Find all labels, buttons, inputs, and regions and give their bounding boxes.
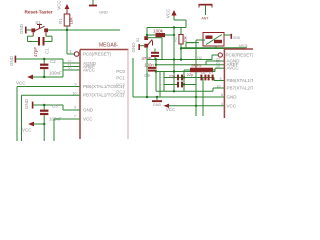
svg-text:PC2: PC2 <box>116 83 125 88</box>
svg-text:GND: GND <box>24 98 29 109</box>
svg-text:7: 7 <box>74 115 76 119</box>
svg-text:Reset-Taster: Reset-Taster <box>24 10 52 15</box>
svg-text:VCC: VCC <box>22 128 32 133</box>
svg-text:GND: GND <box>83 108 94 113</box>
svg-text:R1: R1 <box>58 18 63 24</box>
svg-text:Q1: Q1 <box>197 56 202 60</box>
svg-text:VCC: VCC <box>227 103 237 108</box>
svg-text:PC3: PC3 <box>116 90 125 95</box>
svg-text:AVCC: AVCC <box>83 68 96 73</box>
svg-text:PC6(/RESET): PC6(/RESET) <box>226 53 254 58</box>
svg-text:9: 9 <box>220 77 222 81</box>
svg-text:8MHz: 8MHz <box>191 63 201 68</box>
svg-text:22p: 22p <box>187 73 193 77</box>
svg-text:GND: GND <box>131 42 136 53</box>
svg-text:20: 20 <box>216 65 220 69</box>
svg-text:PB6(XTAL1/T: PB6(XTAL1/T <box>227 78 254 83</box>
svg-text:C3: C3 <box>52 104 58 109</box>
svg-text:8: 8 <box>221 93 223 97</box>
svg-text:PC1: PC1 <box>116 76 125 81</box>
svg-text:100n: 100n <box>144 63 154 68</box>
svg-text:VCC: VCC <box>83 117 93 122</box>
svg-text:10: 10 <box>217 84 221 88</box>
svg-text:VCC: VCC <box>16 81 26 86</box>
svg-text:GND: GND <box>9 55 14 66</box>
svg-text:3: 3 <box>74 106 76 110</box>
svg-text:PC6(/RESET): PC6(/RESET) <box>83 52 112 57</box>
svg-text:PC0: PC0 <box>116 69 125 74</box>
svg-text:C7: C7 <box>209 71 214 75</box>
svg-text:ANT: ANT <box>201 17 209 21</box>
svg-text:10k: 10k <box>183 36 188 42</box>
svg-text:47pF: 47pF <box>33 47 38 58</box>
svg-text:22p: 22p <box>169 75 175 79</box>
svg-text:GND: GND <box>227 95 238 100</box>
svg-text:9: 9 <box>75 83 77 87</box>
svg-text:GND: GND <box>233 36 241 40</box>
svg-text:20: 20 <box>68 67 72 71</box>
svg-text:PB7(XTAL2/T: PB7(XTAL2/T <box>227 86 254 91</box>
svg-text:4: 4 <box>221 102 223 106</box>
svg-text:10k: 10k <box>69 17 74 25</box>
svg-text:100k: 100k <box>153 29 164 34</box>
svg-text:ASC8: ASC8 <box>239 44 248 48</box>
svg-text:AVCC: AVCC <box>227 66 240 71</box>
svg-text:MEGA8-: MEGA8- <box>99 43 119 49</box>
svg-text:GND: GND <box>19 23 24 34</box>
svg-text:GND: GND <box>99 10 108 15</box>
svg-text:C1: C1 <box>45 48 50 54</box>
svg-text:10: 10 <box>73 92 77 96</box>
svg-text:C2: C2 <box>50 59 56 64</box>
svg-text:VCC: VCC <box>166 107 175 112</box>
svg-text:100nF: 100nF <box>49 71 62 76</box>
svg-text:S2: S2 <box>136 38 140 43</box>
svg-text:VCC: VCC <box>166 8 171 18</box>
svg-text:GND: GND <box>153 103 162 107</box>
svg-text:C6: C6 <box>201 71 206 75</box>
svg-text:VCC: VCC <box>57 0 62 10</box>
